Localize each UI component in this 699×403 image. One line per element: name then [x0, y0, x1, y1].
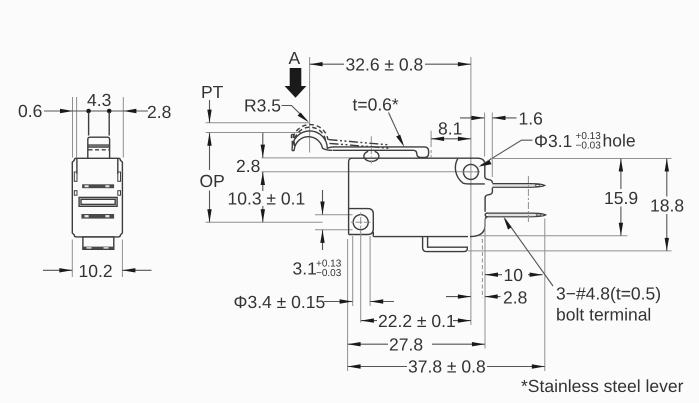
dim 18.8	[666, 159, 668, 197]
lever hump vertical centerline	[309, 57, 311, 153]
svg-text:0.6: 0.6	[18, 101, 42, 121]
hinge hole top right	[463, 164, 478, 179]
middle band inner	[81, 199, 115, 204]
dim 27.8	[348, 343, 485, 345]
dot 4.3 right	[107, 109, 112, 114]
R3.5 leader	[282, 106, 308, 121]
OP dim line lower	[209, 191, 211, 223]
body top extension left	[262, 157, 352, 159]
svg-text:hole: hole	[603, 131, 636, 151]
blade terminal 2	[488, 213, 546, 217]
dim phi 3.4	[324, 301, 353, 303]
svg-text:3−#4.8(t=0.5): 3−#4.8(t=0.5)	[556, 284, 661, 304]
body tab upper right	[118, 172, 121, 181]
body right edge upper step	[485, 177, 493, 184]
arrowhead 10.2 right	[122, 268, 135, 272]
PT arrow	[209, 100, 211, 123]
svg-text:t=0.6*: t=0.6*	[353, 95, 399, 115]
leader bolt terminal	[505, 219, 553, 286]
arrowhead 10.2 left	[59, 268, 72, 272]
dot 4.3 left	[86, 109, 91, 114]
extension line body right step below	[484, 219, 486, 349]
svg-text:15.9: 15.9	[604, 188, 638, 208]
plunger shaft	[88, 112, 90, 136]
dim 10.3 vertical	[262, 172, 264, 222]
svg-text:8.1: 8.1	[438, 119, 462, 139]
hinge hole center mark	[462, 171, 480, 173]
switch body side outline	[72, 158, 122, 237]
lower hole horizontal centerline	[206, 221, 323, 223]
label 22.2	[377, 313, 453, 329]
svg-text:2.8: 2.8	[147, 102, 171, 122]
slot bar 1	[82, 184, 114, 188]
extension line 10.2 left	[71, 240, 73, 278]
terminal bottom extension right	[468, 250, 672, 252]
body tab upper left	[74, 172, 77, 181]
svg-text:2.8: 2.8	[236, 156, 260, 176]
dim 2.8 right	[446, 296, 471, 298]
mounting pad lower-left	[349, 209, 374, 235]
lever phantom tip hook	[291, 134, 294, 138]
svg-text:A: A	[289, 48, 301, 68]
body bottom extension right	[479, 235, 628, 237]
pad to bottom step	[372, 232, 374, 237]
arrowhead 2.8	[123, 109, 136, 113]
dim 32.6 line	[310, 63, 344, 65]
svg-text:bolt terminal: bolt terminal	[556, 305, 651, 325]
svg-text:PT: PT	[201, 82, 224, 102]
extension line 0.6 right	[76, 97, 78, 158]
PT reference line	[206, 122, 310, 124]
svg-text:OP: OP	[200, 171, 225, 191]
plunger cap lines	[88, 144, 110, 146]
body outline left	[349, 158, 352, 234]
blade 2 hole	[536, 214, 541, 216]
dimension line 0.6 / 4.3 / 2.8	[44, 110, 148, 112]
svg-text:22.2 ± 0.1: 22.2 ± 0.1	[378, 311, 456, 331]
lever free position dashed arc upper	[292, 125, 328, 146]
svg-text:Φ3.1: Φ3.1	[534, 131, 572, 151]
extension line lower hole centerline below	[360, 232, 362, 323]
lower hole tangent line upper	[315, 214, 353, 216]
label 10.3	[227, 191, 301, 206]
bottom box	[83, 237, 114, 249]
svg-text:1.6: 1.6	[519, 109, 543, 129]
SIDEVIEW	[18, 90, 171, 281]
extension line 0.6 left	[72, 97, 74, 158]
blade 2 left cap	[485, 213, 488, 217]
dim 37.8	[348, 366, 545, 368]
body outline top	[352, 158, 485, 176]
svg-text:−0.03: −0.03	[576, 141, 602, 152]
blade terminal 1	[492, 184, 544, 188]
blade bolt hole centerline	[527, 176, 529, 222]
lever phantom line lower	[330, 143, 391, 148]
body top extension right	[490, 158, 672, 160]
hinge hole vertical centerline	[470, 57, 472, 325]
dim 3.1 vertical	[322, 190, 324, 215]
lower hole tangent line lower	[315, 229, 353, 231]
t=0.6 leader	[389, 113, 403, 144]
body tab lower right	[118, 191, 121, 196]
svg-text:*Stainless steel lever: *Stainless steel lever	[521, 376, 684, 396]
label 27.8	[388, 337, 432, 353]
dim 1.6 line	[460, 117, 484, 119]
lever flat strip and end cap	[333, 147, 429, 158]
label 37.8	[407, 359, 487, 375]
top hole centerline dash	[464, 171, 481, 173]
plunger cap	[88, 137, 110, 158]
svg-text:10.3 ± 0.1: 10.3 ± 0.1	[228, 189, 306, 209]
lever hump outer arc	[292, 131, 334, 149]
dim 2.8 left vertical	[262, 133, 264, 158]
svg-text:3.1: 3.1	[293, 259, 317, 279]
dim 1.6 extension lines	[484, 113, 486, 157]
dim 8.1 extension line	[430, 131, 432, 147]
svg-text:10.2: 10.2	[79, 261, 113, 281]
svg-text:32.6 ± 0.8: 32.6 ± 0.8	[346, 55, 424, 75]
blade 1 hole	[535, 185, 540, 187]
extension line phi3.4 right	[369, 236, 371, 306]
force arrow A shaft	[290, 68, 302, 86]
mounting hole lower left	[353, 215, 368, 230]
extension line right of side view	[122, 97, 124, 158]
svg-text:−0.03: −0.03	[316, 268, 342, 279]
top hole horizontal centerline	[262, 171, 463, 173]
middle band outer	[79, 197, 117, 206]
arrowhead 0.6	[60, 109, 73, 113]
MAINVIEW	[206, 57, 546, 325]
body right edge lower and corner	[470, 217, 487, 236]
OP reference line	[206, 132, 301, 134]
svg-text:18.8: 18.8	[650, 196, 684, 216]
mounting hole center marks	[351, 221, 371, 223]
extension line blade tip below	[544, 219, 546, 372]
force arrow A head	[285, 86, 307, 98]
svg-text:4.3: 4.3	[87, 90, 111, 110]
dimension 10.2 left segment	[43, 269, 72, 271]
svg-text:10: 10	[504, 265, 524, 285]
dimension 10.2 right segment	[122, 269, 151, 271]
dim 22.2	[361, 320, 471, 322]
body tab lower left	[74, 191, 77, 196]
bottom box dark bar	[84, 247, 114, 250]
svg-text:27.8: 27.8	[389, 335, 423, 355]
label 10	[502, 267, 528, 282]
svg-text:R3.5: R3.5	[244, 96, 281, 116]
body inner wall left	[76, 158, 78, 174]
dim 10	[485, 274, 543, 276]
lever tip cap	[292, 149, 294, 151]
plunger dome centerline	[370, 136, 372, 163]
extension line dashed right of hinge cl	[481, 239, 483, 298]
hinge boss arc	[455, 158, 484, 184]
plunger dashed line	[89, 149, 110, 151]
extension line 10.2 right	[121, 240, 123, 278]
slot bar 2	[81, 214, 114, 219]
lever free position dashed arc lower	[294, 127, 326, 146]
lever hump inner arc	[294, 137, 332, 151]
svg-text:Φ3.4 ± 0.15: Φ3.4 ± 0.15	[234, 292, 326, 312]
extension line phi3.4 left	[352, 236, 354, 306]
DIMS	[200, 48, 685, 396]
body inner wall right	[117, 158, 119, 174]
OP dim line upper	[209, 133, 211, 170]
bent bolt terminal bottom	[423, 237, 468, 252]
extension line body left below	[347, 239, 349, 371]
dim 8.1 line	[431, 138, 471, 140]
svg-text:2.8: 2.8	[503, 288, 527, 308]
plunger dome	[364, 151, 379, 161]
body outline bottom	[373, 236, 468, 238]
phi 3.1 leader	[481, 140, 533, 165]
body right edge between blades	[485, 188, 492, 212]
lever phantom line upper	[329, 140, 389, 145]
svg-text:37.8 ± 0.8: 37.8 ± 0.8	[408, 357, 486, 377]
dim 15.9	[620, 159, 622, 190]
